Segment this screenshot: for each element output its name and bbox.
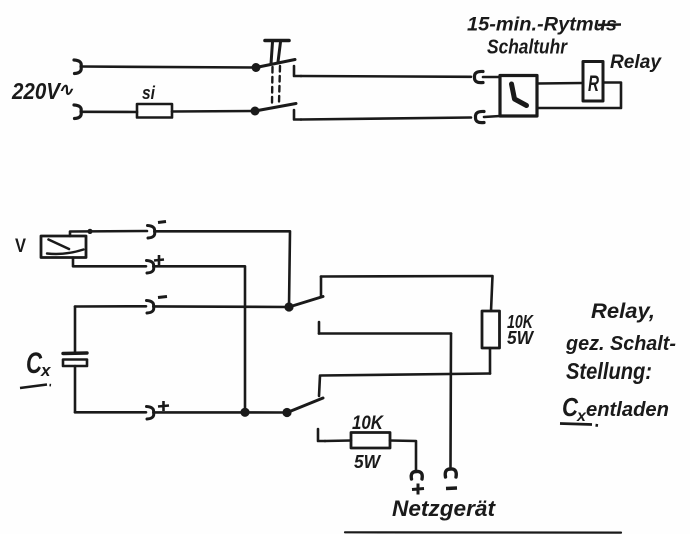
svg-text:Stellung:: Stellung: — [566, 358, 652, 384]
relay coil box R — [583, 62, 603, 102]
underline Cx — [20, 385, 51, 389]
switch S1b blade — [255, 104, 296, 112]
wire cap left vertical — [74, 307, 77, 353]
node timer top terminal — [474, 71, 483, 82]
wire resistor bottom — [489, 348, 492, 374]
underline Cx entladen — [560, 424, 598, 426]
node joint dot meter stub — [87, 229, 92, 234]
switch actuator T-handle — [265, 39, 289, 43]
wire voltmeter plus stub — [73, 258, 146, 267]
switch K1 blade — [289, 297, 323, 308]
wire plus terminal to junctions — [154, 411, 287, 414]
timer box Schaltuhr — [500, 76, 537, 117]
resistor R1 10K 5W vertical — [482, 311, 500, 348]
switch S1a contact — [294, 66, 301, 76]
label minus (cap wire) — [158, 297, 167, 298]
node terminal Netzgeraet minus — [445, 469, 456, 477]
svg-text:si: si — [142, 83, 156, 103]
svg-text:5W: 5W — [507, 328, 535, 348]
svg-text:Relay,: Relay, — [591, 300, 655, 323]
svg-text:gez. Schalt-: gez. Schalt- — [565, 333, 676, 355]
node timer bottom terminal — [475, 111, 484, 122]
node terminal Netzgeraet plus — [411, 471, 422, 479]
svg-text:10K: 10K — [352, 413, 384, 434]
switch K1 contact upper — [320, 277, 323, 298]
capacitor Cx bottom plate — [63, 360, 87, 367]
svg-text:5W: 5W — [354, 452, 382, 472]
wire R2 to plus terminal — [390, 441, 416, 471]
node junction meter plus — [240, 408, 249, 417]
svg-text:15-min.-Rytmus: 15-min.-Rytmus — [467, 15, 617, 36]
wire plus to corner — [154, 266, 245, 412]
wire top feed — [81, 67, 256, 68]
svg-text:entladen: entladen — [586, 399, 669, 421]
label plus (cap wire) — [158, 401, 169, 411]
wire to fuse — [81, 111, 137, 114]
wire to resistor R2 — [325, 439, 351, 442]
timer clock hands — [512, 84, 527, 106]
node junction switch2 — [282, 408, 291, 417]
wire B horizontal — [319, 332, 451, 335]
label plus (Netzgeraet) — [412, 484, 424, 495]
wire fuse to junction — [172, 110, 255, 113]
node 220V bottom terminal — [74, 105, 81, 119]
wire minus terminal to switch junction — [154, 305, 289, 308]
switch S1b contact — [294, 110, 301, 120]
voltmeter needle — [49, 240, 70, 250]
wire cap minus horizontal — [75, 305, 146, 308]
wire terminal to timer box bottom — [484, 116, 500, 117]
node junction top — [252, 63, 261, 72]
svg-text:∿: ∿ — [58, 80, 74, 100]
wire cap bottom vertical — [74, 366, 77, 412]
wire cap plus horizontal — [75, 411, 146, 414]
wire terminal to timer box top — [483, 76, 500, 79]
svg-text:x: x — [40, 361, 52, 380]
node terminal minus (cap) — [147, 301, 154, 314]
wire B vertical to minus terminal — [449, 334, 452, 468]
svg-text:R: R — [588, 71, 599, 96]
svg-text:Netzgerät: Netzgerät — [392, 496, 497, 521]
node junction bottom — [251, 107, 260, 116]
switch K1 contact lower — [318, 322, 321, 334]
wire A to resistor top — [321, 276, 493, 311]
node terminal plus (cap) — [147, 407, 154, 420]
paper edge line bottom — [345, 531, 621, 533]
svg-text:V: V — [15, 236, 26, 257]
switch K2 contact lower — [318, 429, 325, 441]
label minus (meter) — [158, 222, 166, 223]
node terminal plus (meter) — [147, 261, 154, 274]
wire minus to corner — [155, 231, 290, 307]
voltmeter V box — [41, 236, 86, 258]
wire voltmeter minus stub — [70, 231, 147, 236]
resistor R2 10K 5W horizontal — [351, 433, 390, 449]
switch linkage dashed — [271, 67, 274, 104]
node terminal minus (meter) — [148, 226, 155, 239]
svg-text:Relay: Relay — [610, 52, 662, 73]
capacitor Cx top plate — [63, 351, 87, 355]
switch S1a blade — [256, 60, 295, 68]
fuse si — [137, 104, 172, 118]
label plus (meter) — [154, 255, 164, 265]
stroke after Rytmus — [598, 23, 621, 26]
wire bottom to timer — [301, 118, 471, 120]
label minus (Netzgeraet) — [446, 486, 457, 490]
svg-text:220V: 220V — [11, 78, 61, 104]
voltmeter scale arc — [47, 250, 84, 255]
node 220V top terminal — [74, 60, 81, 74]
switch K2 contact upper — [319, 376, 320, 397]
wire timer to relay coil — [537, 82, 583, 85]
switch K2 blade — [286, 398, 323, 413]
wire C horizontal — [321, 374, 490, 376]
wire top to timer — [301, 75, 471, 78]
svg-text:Schaltuhr: Schaltuhr — [487, 37, 568, 59]
node junction switch1 — [284, 302, 293, 311]
wire timer bottom around relay — [537, 83, 621, 109]
